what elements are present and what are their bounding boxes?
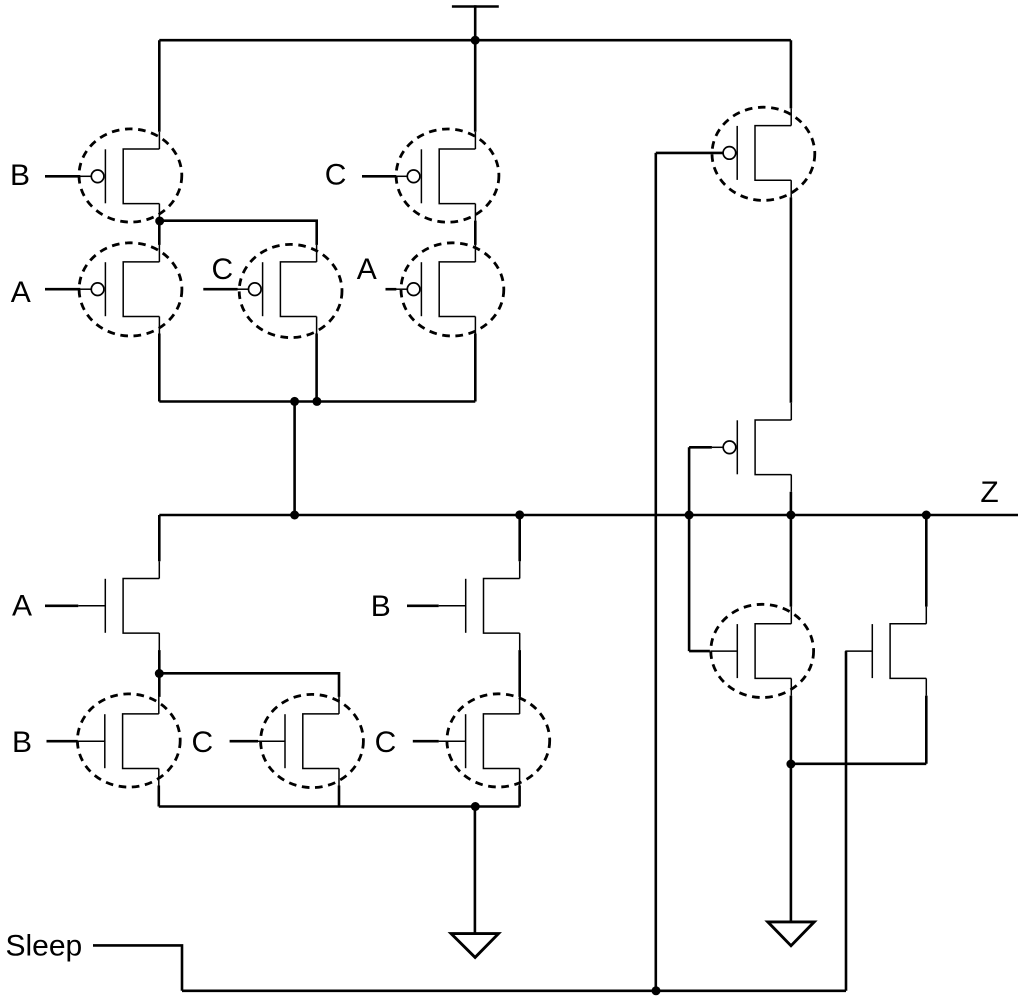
pmos transistor P3 (input A, high-Vt) [80,245,159,334]
label B input of P1 [10,159,30,192]
wire P5 gate lead [386,288,397,291]
label A input of P3 [11,276,31,309]
nmos transistor N5 (input C, high-Vt) [439,697,520,786]
junction dot Z at sleep nmos drain [922,511,931,520]
wire VDD rail to P1 drain [158,40,161,132]
wire P3 gate lead [45,288,80,291]
wire N2 gate lead [407,604,439,607]
svg-text:B: B [371,590,391,623]
wire N3 source to pull-down rail [158,786,161,807]
wire N5 source to pull-down rail [518,786,521,807]
wire Z down to N2 drain [518,515,521,561]
nmos transistor N7 sleep nmos [845,607,926,696]
wire P7 source to Z [790,492,793,515]
wire sleep bottom line [182,989,846,992]
wire right rail [791,762,926,765]
wire keeper gate net to P7 gate [689,446,712,449]
wire node n2 branch to N4 drain [159,673,339,697]
wire N6 source to right rail [790,696,793,764]
svg-text:Sleep: Sleep [6,930,83,963]
junction dot sleep vertical on bottom line [652,986,661,995]
wire P2 source to P5 drain [474,221,477,245]
svg-text:A: A [357,253,377,286]
nmos transistor N4 (input C, high-Vt) [258,697,339,786]
high-Vt dashed circle of N3 (input B, high-Vt) [77,694,180,787]
VDD power symbol [452,5,499,132]
high-Vt dashed circle of P1 (input B, high-Vt) [79,129,182,222]
wire sleep net vertical [654,153,657,991]
wire pull-up network bottom rail [159,400,475,403]
wire P1 gate lead [45,175,80,178]
wire VDD rail to P6 drain [790,40,793,108]
ground symbol left [451,934,498,958]
label B input of N3 [12,726,32,759]
nmos transistor N6 keeper nmos (high-Vt) [710,607,791,696]
pmos transistor P7 keeper pmos [712,403,792,492]
wire P6 source to P7 drain [790,197,793,402]
nmos transistor N1 (input A) [78,561,159,650]
wire pull-down network bottom rail [159,805,520,808]
wire pull-up rail down to output node [293,402,296,516]
junction dot pull-up rail right [312,397,321,406]
pmos transistor P1 (input B, high-Vt) [80,132,159,221]
wire output net Z [159,514,1018,517]
wire sleep bottom net to N7 gate [845,651,848,991]
svg-text:A: A [11,276,31,309]
label C input of N5 [375,726,397,759]
junction dot Z at keeper column [786,511,795,520]
svg-text:C: C [325,159,347,192]
wire N7 source to right rail [925,696,928,764]
wire node n1 P1 source to P3 drain [158,221,161,245]
label C input of P2 [325,159,347,192]
high-Vt dashed circle of N5 (input C, high-Vt) [447,694,550,787]
wire P5 source to pull-up rail [474,334,477,402]
high-Vt dashed circle of P6 sleep pmos (high-Vt) [712,107,815,200]
wire N1 gate lead [45,604,78,607]
wire pull-down rail to ground [474,807,477,934]
junction dot node n1 [155,217,164,226]
high-Vt dashed circle of P3 (input A, high-Vt) [79,243,182,336]
wire P4 source to pull-up rail [315,334,318,402]
junction dot node n2 [155,669,164,678]
wire sleep net to P6 gate [656,152,723,155]
svg-text:Z: Z [980,476,998,509]
ground symbol right [768,922,814,946]
high-Vt dashed circle of P5 (input A, high-Vt) [401,243,504,336]
wire N4 source to pull-down rail [338,786,341,807]
svg-text:B: B [12,726,32,759]
pmos transistor P2 (input C, high-Vt) [396,132,476,221]
wire P2 gate lead [362,175,396,178]
svg-text:C: C [211,253,233,286]
label C input of N4 [191,726,213,759]
junction dot pull-up rail left [290,397,299,406]
junction dot Z at pull-up branch [290,511,299,520]
wire Sleep label lead [93,945,182,990]
junction dot pull-down rail to ground [471,802,480,811]
wire P3 source to pull-up rail [158,334,161,402]
pmos transistor P6 sleep pmos (high-Vt) [723,108,791,197]
wire N4 gate lead [230,740,258,743]
wire node n1 branch to P4 drain [159,221,316,245]
wire N5 gate lead [413,740,439,743]
high-Vt dashed circle of N4 (input C, high-Vt) [261,694,364,787]
junction dot VDD stem on rail [471,36,480,45]
wire keeper gate net to N6 gate [689,650,710,653]
high-Vt dashed circle of N6 keeper nmos (high-Vt) [711,604,814,697]
label Z output [980,476,998,509]
wire N2 source to N5 drain [518,650,521,697]
svg-text:B: B [10,159,30,192]
nmos transistor N2 (input B) [439,561,520,650]
pmos transistor P5 (input A, high-Vt) [396,245,476,334]
nmos transistor N3 (input B, high-Vt) [78,697,159,786]
wire P4 gate lead [203,288,237,291]
junction dot right rail to ground [786,760,795,769]
wire VDD rail [159,39,791,42]
high-Vt dashed circle of P2 (input C, high-Vt) [396,129,499,222]
junction dot Z at N2 drain [515,510,524,519]
label Sleep input [6,930,83,963]
wire right rail to ground [790,764,793,922]
label B input of N2 [371,590,391,623]
svg-text:C: C [191,726,213,759]
wire Z down to N7 drain [925,515,928,607]
pmos transistor P4 (input C, high-Vt) [237,245,317,334]
wire Z down to N1 drain [158,515,161,561]
wire node n2 N1 source to N3 drain [158,650,161,697]
high-Vt dashed circle of P4 (input C, high-Vt) [239,244,342,337]
junction dot Z at keeper gate net [685,511,694,520]
label A input of P5 [357,253,377,286]
svg-text:C: C [375,726,397,759]
label C input of P4 [211,253,233,286]
wire keeper gate net vertical [688,447,691,651]
svg-text:A: A [12,590,32,623]
wire Z down to N6 drain [790,515,793,607]
label A input of N1 [12,590,32,623]
wire N3 gate lead [47,740,78,743]
